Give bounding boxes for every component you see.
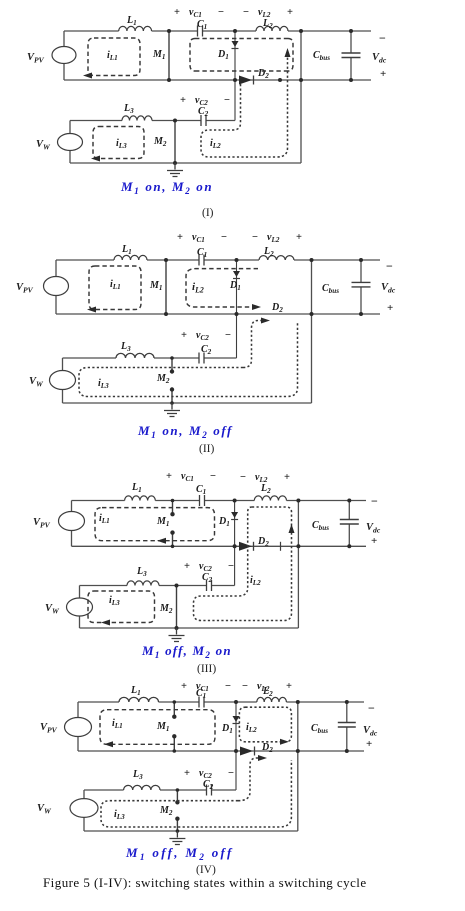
inductor L2 (I) <box>256 26 288 31</box>
arrow toward D2 (IV) <box>258 755 267 761</box>
switch M1 (III) off <box>172 501 174 547</box>
diode D1 (I) <box>234 31 236 121</box>
wire: Cbus leg III <box>348 501 350 547</box>
svg-text:(II): (II) <box>199 443 214 455</box>
inductor L2 (III) <box>254 496 286 501</box>
capacitor C1 (I) <box>198 26 203 37</box>
svg-text:+: + <box>180 95 186 106</box>
arrow iL1 (III) <box>157 538 166 544</box>
switch M2 (I) on <box>174 121 176 164</box>
wire: lower bottom IV <box>84 830 298 832</box>
arrow iL2 (IV) <box>280 739 289 745</box>
inductor L2 (IV) <box>257 697 287 702</box>
wire: left branch IV <box>77 702 79 751</box>
svg-text:(I): (I) <box>202 207 214 219</box>
wire: mid rail II <box>56 313 380 315</box>
wire: top rail I <box>64 30 371 32</box>
capacitor C2 (IV) <box>207 785 212 796</box>
voltage source Vw (II) <box>50 371 76 390</box>
diode D1 (IV) <box>235 702 237 790</box>
svg-text:+: + <box>286 681 292 692</box>
current loop iL1 (I) <box>88 38 140 76</box>
svg-text:−: − <box>224 95 230 106</box>
svg-text:−: − <box>243 7 249 18</box>
capacitor C2 (II) <box>199 353 204 364</box>
current loop iL1 (III) <box>95 508 215 541</box>
wire: top rail IV <box>78 701 364 703</box>
svg-text:+: + <box>287 7 293 18</box>
svg-text:−: − <box>368 701 375 715</box>
svg-text:−: − <box>386 259 393 273</box>
junction (I) <box>278 78 282 82</box>
ground (III) <box>169 628 185 642</box>
svg-text:Figure 5 (I-IV): switching sta: Figure 5 (I-IV): switching states within… <box>43 875 367 890</box>
switch M1 (II) on <box>165 260 167 314</box>
svg-text:−: − <box>242 681 248 692</box>
wire: mid rail I <box>64 79 371 81</box>
arrow iL2 (II) <box>252 304 261 310</box>
capacitor C2 (III) <box>207 580 212 591</box>
diode D2 (IV) <box>240 747 253 756</box>
wire: lower bottom III <box>80 627 299 629</box>
wire: Cbus leg II <box>360 260 362 314</box>
voltage source Vpv (II) <box>44 277 69 296</box>
wire: top rail II <box>56 259 380 261</box>
wire: left branch II <box>55 260 57 314</box>
wire: lower left IV <box>83 790 85 831</box>
arrow iL1 (II) <box>87 307 96 313</box>
current loop iL2 (II) <box>186 269 258 307</box>
arrow iL3 (III) <box>101 620 110 626</box>
current loop iL3 (III) <box>88 591 155 623</box>
wire: left branch I <box>63 31 65 80</box>
svg-text:+: + <box>296 232 302 243</box>
svg-text:−: − <box>221 232 227 243</box>
svg-text:−: − <box>228 768 234 779</box>
voltage source Vpv (IV) <box>65 718 92 737</box>
voltage source Vw (I) <box>58 134 83 151</box>
wire: mid rail IV <box>78 750 364 752</box>
wire: right rail II <box>311 260 313 403</box>
wire: lower left I <box>69 121 71 164</box>
switch M2 (IV) off <box>176 790 178 831</box>
capacitor C1 (IV) <box>199 697 204 708</box>
svg-text:−: − <box>371 494 378 508</box>
capacitor C2 (I) <box>201 115 206 126</box>
current loop iL2 (III) <box>194 507 292 621</box>
wire: left branch III <box>71 501 73 547</box>
svg-text:−: − <box>218 7 224 18</box>
svg-text:−: − <box>228 561 234 572</box>
wire: right rail I <box>300 31 302 163</box>
capacitor Cbus (II) <box>352 282 371 287</box>
svg-text:−: − <box>252 232 258 243</box>
ground (II) <box>164 403 180 417</box>
svg-text:(III): (III) <box>197 663 216 675</box>
current loop iL2 (IV) <box>239 707 291 742</box>
switch M2 (II) off <box>171 358 173 403</box>
arrow iL3 (I) <box>91 156 100 162</box>
svg-text:−: − <box>379 31 386 45</box>
wire: top rail III <box>72 500 367 502</box>
capacitor C1 (III) <box>200 495 205 506</box>
inductor L3 (II) <box>116 353 154 358</box>
voltage source Vw (IV) <box>70 799 98 818</box>
wire: lower top II <box>63 357 237 359</box>
svg-text:+: + <box>181 681 187 692</box>
arrow iL1 (I) <box>83 73 92 79</box>
svg-text:+: + <box>366 738 372 750</box>
arrow toward D2 (II) <box>261 318 270 324</box>
wire: mid rail III <box>72 545 367 547</box>
ground (IV) <box>169 831 185 845</box>
current loop up to D2 (IV) <box>238 758 260 801</box>
wire: lower top IV <box>84 789 236 791</box>
arrow iL1 (IV) <box>104 741 113 747</box>
svg-text:+: + <box>284 472 290 483</box>
svg-text:+: + <box>371 535 377 547</box>
current loop D1-C1 (I) <box>190 39 293 72</box>
capacitor Cbus (I) <box>342 53 361 58</box>
svg-text:+: + <box>166 471 172 482</box>
svg-text:+: + <box>177 232 183 243</box>
current loop iL2 (I) <box>201 53 288 157</box>
svg-text:+: + <box>174 7 180 18</box>
wire: right rail III <box>297 501 299 629</box>
voltage source Vw (III) <box>67 598 93 616</box>
capacitor Cbus (III) <box>340 520 359 525</box>
capacitor C1 (II) <box>199 255 204 266</box>
wire: lower bottom I <box>70 162 301 164</box>
inductor L1 (II) <box>114 255 147 260</box>
wire: lower left III <box>79 586 81 629</box>
wire: Cbus leg IV <box>346 702 348 751</box>
inductor L2 (II) <box>259 256 294 260</box>
arrow iL2 up (III) <box>289 524 295 533</box>
wire: lower left II <box>62 358 64 403</box>
wire: lower bottom II <box>63 402 312 404</box>
inductor L1 (III) <box>125 496 156 501</box>
current loop iL3 (I) <box>93 127 144 159</box>
switch M2 (III) on <box>176 586 178 629</box>
wire: right rail IV <box>297 702 299 831</box>
inductor L3 (III) <box>127 581 159 586</box>
svg-text:+: + <box>184 561 190 572</box>
current loop iL3-big (IV) <box>101 760 291 827</box>
svg-text:+: + <box>184 768 190 779</box>
switch M1 (I) on <box>168 31 170 80</box>
voltage source Vpv (I) <box>52 47 76 64</box>
wire: lower top I <box>70 120 235 122</box>
diode D1 (II) <box>236 260 238 358</box>
inductor L3 (I) <box>122 116 152 121</box>
diode D1 (III) <box>234 501 236 586</box>
svg-text:−: − <box>210 471 216 482</box>
inductor L1 (IV) <box>119 697 159 702</box>
svg-text:+: + <box>181 330 187 341</box>
current loop iL1 (II) <box>89 266 141 310</box>
svg-text:−: − <box>225 681 231 692</box>
inductor L3 (IV) <box>124 785 160 790</box>
inductor L1 (I) <box>119 26 152 31</box>
switch M1 (IV) off <box>173 702 175 751</box>
ground (I) <box>167 163 183 177</box>
voltage source Vpv (III) <box>59 512 85 531</box>
diode D2 (III) <box>239 542 252 551</box>
current loop iL3-big (II) <box>79 322 298 397</box>
svg-text:+: + <box>387 302 393 314</box>
wire: lower top III <box>80 585 235 587</box>
capacitor Cbus (IV) <box>338 723 356 728</box>
arrow iL2 up (I) <box>285 48 291 57</box>
svg-text:−: − <box>240 472 246 483</box>
svg-text:−: − <box>225 330 231 341</box>
diode D2 (I) <box>239 76 252 85</box>
current loop iL1 (IV) <box>100 710 215 745</box>
wire: Cbus leg I <box>350 31 352 80</box>
current loop up to D2 (II) <box>243 321 263 368</box>
svg-text:+: + <box>380 68 386 80</box>
